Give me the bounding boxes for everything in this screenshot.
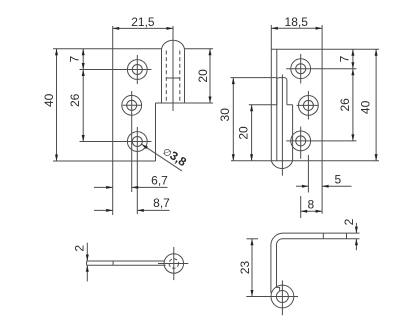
dimension 23 — [251, 239, 253, 297]
svg-text:8,7: 8,7 — [153, 196, 170, 210]
svg-text:∅3,8: ∅3,8 — [160, 144, 189, 170]
leader diameter 3,8 — [142, 144, 182, 171]
leaf A knuckle (barrel) — [156, 40, 214, 103]
dimension 5 — [296, 185, 352, 187]
dimension 8,7 — [94, 209, 170, 211]
dimension 8 — [301, 210, 322, 212]
barrel A centerline — [172, 26, 174, 111]
svg-text:26: 26 — [338, 98, 352, 112]
dimension 2 (side view A) — [86, 243, 88, 282]
svg-text:40: 40 — [42, 93, 56, 107]
dimension 20 (barrel B) — [251, 105, 253, 161]
hole A3 — [80, 127, 152, 214]
hinge leaf A outline — [53, 26, 162, 215]
svg-text:7: 7 — [68, 55, 82, 62]
svg-text:23: 23 — [238, 261, 252, 275]
svg-text:30: 30 — [218, 108, 232, 122]
dimension 18,5 — [271, 27, 322, 29]
hole A1 — [80, 55, 152, 84]
hole B2 — [297, 91, 319, 120]
svg-text:7: 7 — [338, 55, 352, 62]
extension line 23 top — [247, 238, 259, 240]
dimension 7 (leaf A) — [82, 49, 84, 70]
pin end hidden line — [166, 77, 180, 79]
dimension 26 (leaf A) — [82, 70, 84, 142]
dimension 20 (barrel A) — [209, 49, 211, 103]
svg-text:18,5: 18,5 — [285, 15, 309, 29]
hole A2 — [122, 91, 142, 192]
side view A: flat leaf — [87, 261, 166, 265]
hole B1 — [286, 54, 356, 84]
barrel B centerline — [281, 75, 283, 176]
hole B3 — [286, 127, 356, 159]
dimension 21,5 — [113, 27, 173, 29]
svg-text:20: 20 — [236, 126, 250, 140]
svg-text:6,7: 6,7 — [151, 174, 168, 188]
side view B: angle leaf — [271, 233, 360, 293]
side view A barrel circle — [158, 247, 188, 280]
barrel A hidden pin hole (dashed) — [166, 51, 180, 104]
side view B barrel circle — [246, 280, 298, 315]
dimension 30 — [232, 78, 234, 161]
leaf B knuckle (barrel) — [249, 105, 293, 169]
dimension 26 (leaf B) — [352, 69, 354, 141]
svg-text:21,5: 21,5 — [131, 15, 155, 29]
svg-text:2: 2 — [342, 218, 356, 225]
svg-text:8: 8 — [308, 198, 315, 212]
dimension 40 (leaf A) — [56, 49, 58, 161]
svg-text:26: 26 — [68, 93, 82, 107]
svg-text:20: 20 — [196, 69, 210, 83]
dimension 2 (side view B) — [355, 223, 357, 250]
dimension 40 (leaf B) — [375, 49, 377, 161]
extension lines B bottom — [231, 78, 323, 218]
svg-text:5: 5 — [335, 173, 342, 187]
svg-text:2: 2 — [73, 245, 87, 252]
hinge leaf B outline — [231, 25, 379, 161]
leaf B pin (top stub) — [277, 78, 287, 105]
svg-text:40: 40 — [359, 100, 373, 114]
dimension 7 (leaf B) — [352, 49, 354, 68]
dimension 6,7 — [94, 186, 168, 188]
